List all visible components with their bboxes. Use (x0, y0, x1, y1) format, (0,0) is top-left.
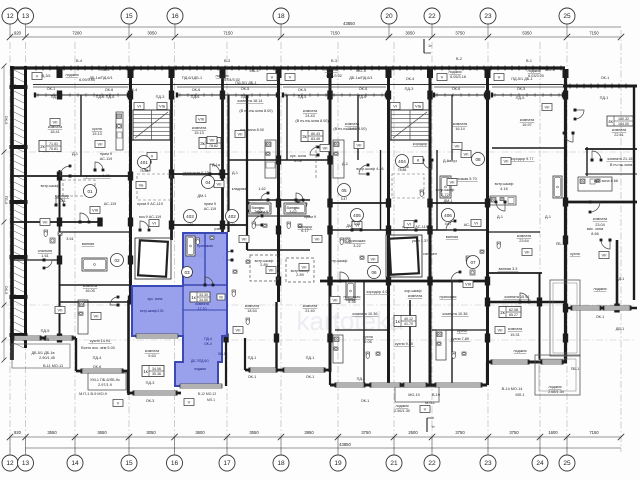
wall core3-right (429, 70, 432, 385)
svg-text:403: 403 (186, 214, 194, 219)
grid bubble 20 top (381, 8, 397, 24)
tag box VII (354, 142, 364, 149)
grid bubble 25 top (559, 8, 575, 24)
pier (128, 218, 133, 227)
window bottom wing 572 (572, 306, 600, 310)
wall center bath bottom (247, 249, 310, 251)
svg-text:V: V (441, 75, 444, 80)
sill mullion (219, 93, 221, 97)
wall stair-right (170, 70, 173, 240)
svg-text:прихожая 6.95: прихожая 6.95 (84, 174, 109, 178)
toilet mid low 1 (366, 352, 370, 358)
room circle 08 (472, 153, 485, 166)
svg-text:34.06: 34.06 (152, 367, 161, 371)
hatch (14, 91, 24, 96)
svg-text:07: 07 (470, 260, 476, 265)
facade mullion (119, 66, 121, 71)
facade mullion (154, 66, 156, 71)
window jamb (121, 369, 124, 374)
svg-text:комната: комната (508, 327, 523, 331)
svg-text:ПД-1: ПД-1 (51, 95, 60, 99)
pier (276, 199, 281, 208)
svg-text:7.81: 7.81 (58, 199, 65, 203)
sill mullion (53, 93, 55, 97)
svg-text:ОК-5: ОК-5 (4, 116, 8, 125)
leader 13 top (25, 24, 27, 37)
svg-text:В-4: В-4 (76, 59, 82, 63)
facade mullion (196, 66, 198, 71)
sill mullion (436, 93, 438, 97)
facade mullion (490, 66, 492, 71)
svg-text:01: 01 (87, 189, 93, 194)
svg-text:VII: VII (455, 144, 460, 149)
svg-text:78.86: 78.86 (140, 169, 149, 173)
facade mullion (392, 66, 394, 71)
tag box VII (542, 104, 552, 111)
svg-text:15.13: 15.13 (92, 132, 102, 136)
facade mullion (287, 66, 289, 71)
tag box VII (522, 249, 532, 256)
wall window-sill row bay3 (283, 94, 386, 96)
svg-text:35.36: 35.36 (152, 372, 161, 376)
wall bottom mid facade (245, 369, 330, 372)
elevator right room (386, 235, 422, 277)
door D27 (407, 220, 418, 232)
left vert dim line (3, 66, 5, 360)
svg-text:9.63: 9.63 (148, 354, 155, 358)
facade mullion (210, 66, 212, 71)
svg-text:санузел: санузел (423, 252, 437, 256)
dim tick bottom (22, 434, 28, 440)
pier (327, 199, 332, 208)
window kitchen bottom (82, 369, 122, 373)
svg-text:VII: VII (219, 296, 223, 300)
sink 1 (58, 232, 62, 235)
sill mullion (341, 93, 343, 97)
svg-text:кух. зона: кух. зона (148, 297, 163, 301)
svg-text:15.31: 15.31 (510, 333, 520, 337)
hatch (14, 308, 24, 313)
blue wall hall (183, 309, 227, 311)
grid axis line 16 (174, 42, 176, 452)
facade mullion (49, 66, 51, 71)
svg-text:АС-119: АС-119 (100, 157, 113, 161)
wall corridor north mid (330, 202, 388, 204)
blue tag VB (185, 270, 192, 276)
svg-text:5.65: 5.65 (354, 222, 361, 226)
facade mullion (182, 66, 184, 71)
svg-text:15: 15 (125, 460, 133, 467)
door D25 (110, 296, 120, 307)
svg-text:2.72: 2.72 (441, 193, 448, 197)
svg-text:ванная: ванная (446, 235, 458, 239)
svg-text:лоджия: лоджия (324, 68, 337, 72)
svg-text:комната: комната (593, 217, 608, 221)
svg-text:V: V (289, 75, 292, 80)
wall left room partition (59, 284, 130, 286)
wall apt5 inner (380, 150, 382, 230)
svg-text:21.40: 21.40 (305, 309, 315, 313)
facade mullion (455, 66, 457, 71)
svg-text:ДМ-1: ДМ-1 (197, 194, 206, 198)
kitchen counter mid (436, 330, 446, 360)
svg-text:комната: комната (612, 128, 627, 132)
leader 20 top (388, 24, 390, 37)
svg-text:17: 17 (223, 460, 231, 467)
svg-text:МО-2: МО-2 (466, 67, 476, 71)
facade mullion (441, 66, 443, 71)
sill jamb R (484, 93, 486, 98)
sill mullion (77, 93, 79, 97)
dim tick bottom (335, 434, 341, 440)
svg-text:ОК-6: ОК-6 (105, 88, 114, 92)
svg-text:комната: комната (192, 126, 207, 130)
svg-text:15.13: 15.13 (194, 131, 204, 135)
hatch (14, 266, 24, 271)
wall wing split (586, 147, 588, 176)
leader 23 top (487, 24, 489, 37)
left dim tick (2, 150, 7, 155)
grid bubble 23 top (480, 8, 496, 24)
wall stair1 bottom (130, 139, 171, 141)
svg-text:VI: VI (407, 222, 411, 227)
svg-text:43850: 43850 (339, 442, 351, 447)
facade mullion (245, 66, 247, 71)
balcony mid-bottom (395, 387, 439, 402)
level mark top (424, 39, 432, 53)
washer 4 (470, 270, 475, 275)
door D5 (253, 215, 264, 227)
room circle 404 (396, 155, 409, 173)
facade mullion (77, 66, 79, 71)
svg-text:В-3: В-3 (331, 59, 337, 63)
wall right bath top (487, 231, 540, 233)
tag box X (147, 153, 157, 160)
bathtub apt4 (440, 176, 451, 198)
pier (327, 91, 332, 100)
tag box VII (299, 264, 309, 271)
wall mid lower split (363, 281, 365, 385)
grid bubble 12 bottom (2, 455, 18, 471)
facade mullion (525, 66, 527, 71)
pier (485, 199, 490, 208)
facade mullion right (597, 84, 599, 89)
grid axis line 18 (280, 42, 282, 452)
svg-text:5350: 5350 (522, 31, 532, 36)
svg-text:180.32: 180.32 (618, 117, 629, 121)
pier (386, 226, 391, 235)
left dim tick (2, 220, 7, 225)
svg-text:Д-1: Д-1 (232, 171, 238, 175)
door D7 (351, 221, 363, 232)
svg-text:5.47: 5.47 (341, 197, 348, 201)
svg-text:ОК-6: ОК-6 (359, 87, 368, 91)
tag box VI (134, 103, 144, 110)
sill mullion (333, 93, 335, 97)
svg-text:9.06: 9.06 (364, 340, 371, 344)
svg-text:узел 1.3?: узел 1.3? (412, 239, 428, 243)
window jamb (323, 368, 326, 373)
facade mullion (224, 66, 226, 71)
svg-text:16: 16 (171, 460, 179, 467)
window bottom big 336 (336, 383, 364, 387)
svg-text:кухня: кухня (92, 127, 102, 131)
svg-text:13: 13 (22, 460, 30, 467)
svg-text:1т: 1т (431, 425, 435, 429)
sill mullion (502, 93, 504, 97)
svg-text:лоджия: лоджия (593, 287, 606, 291)
apt box 2к (39, 141, 61, 152)
svg-text:V: V (424, 407, 427, 412)
facade mullion (378, 66, 380, 71)
pier (220, 170, 225, 179)
wall bay5 room bottom (492, 147, 565, 149)
sill mullion (179, 93, 181, 97)
svg-text:15: 15 (125, 13, 133, 20)
level mark bottom (427, 418, 435, 432)
sill jamb R (562, 93, 564, 98)
pilaster (485, 69, 491, 78)
door D23 (310, 146, 320, 157)
pier (537, 298, 542, 307)
svg-text:кух. зона: кух. зона (290, 154, 307, 158)
tag box VII (239, 236, 249, 243)
svg-text:прихожая 6.15: прихожая 6.15 (183, 171, 208, 175)
facade mullion (70, 66, 72, 71)
grid axis line 25 (566, 42, 568, 452)
facade mullion (203, 66, 205, 71)
dim tick bottom (72, 434, 78, 440)
balcony left-bottom (88, 373, 126, 390)
room circle 401 (138, 156, 151, 174)
hatch (14, 224, 24, 229)
pier (276, 277, 281, 286)
hall dashed zone right core (392, 174, 424, 198)
wall bay4 split (451, 95, 453, 160)
room circle 04 (202, 176, 215, 189)
leader 22 top (431, 24, 433, 37)
pilaster (276, 69, 282, 78)
svg-text:80.43: 80.43 (311, 132, 320, 136)
svg-text:ПД-1: ПД-1 (600, 96, 609, 100)
svg-text:коридор 4.06: коридор 4.06 (367, 290, 390, 294)
door D10 (589, 201, 601, 214)
svg-text:7150: 7150 (330, 31, 340, 36)
facade mullion (294, 66, 296, 71)
wall bay2 rooms bottom (171, 173, 228, 175)
sill mullion (534, 93, 536, 97)
svg-text:8.66: 8.66 (591, 232, 598, 236)
svg-text:ПБ-1: ПБ-1 (556, 242, 565, 246)
sill mullion (293, 93, 295, 97)
dim tick top (618, 34, 624, 40)
loggia parapet segments (33, 86, 128, 88)
window jamb (39, 336, 42, 341)
svg-text:ОК-5: ОК-5 (41, 338, 50, 342)
wall corridor north mid2 (430, 202, 487, 204)
svg-text:ДМ-1: ДМ-1 (443, 199, 452, 203)
svg-text:комната: комната (303, 304, 318, 308)
svg-text:V: V (271, 75, 274, 80)
sill mullion (45, 93, 47, 97)
pier (128, 91, 133, 100)
grid axis line 15 (128, 42, 130, 452)
tag box VII (501, 158, 511, 165)
svg-text:4.21: 4.21 (187, 223, 194, 227)
facade mullion (105, 66, 107, 71)
tag box VII (320, 145, 330, 152)
svg-text:В-12 МО-12: В-12 МО-12 (198, 392, 217, 396)
svg-text:VIв: VIв (415, 104, 421, 109)
facade mullion (91, 66, 93, 71)
toilet 2 (190, 246, 194, 252)
pilaster (128, 69, 134, 78)
svg-text:(В пч.пж.зона 8.00): (В пч.пж.зона 8.00) (333, 127, 367, 131)
svg-text:18.41: 18.41 (50, 130, 60, 134)
wall bottom right-center facade (487, 361, 567, 364)
hatch (14, 322, 24, 327)
hatch (14, 343, 24, 348)
svg-text:4.91: 4.91 (229, 223, 236, 227)
svg-text:спальня: спальня (38, 249, 52, 253)
washer 2 (198, 252, 203, 257)
svg-text:16.05: 16.05 (85, 289, 95, 293)
pier (57, 256, 62, 265)
facade mullion (371, 66, 373, 71)
window jamb (363, 383, 366, 388)
svg-text:кухня: кухня (457, 329, 467, 333)
leader 18 bottom (280, 437, 282, 455)
svg-text:14: 14 (71, 460, 79, 467)
toilet 7 (466, 256, 470, 262)
svg-text:МЛ-1: МЛ-1 (207, 398, 215, 402)
facade mullion (560, 66, 562, 71)
pier (563, 198, 568, 207)
sink 2 (360, 256, 364, 259)
pier (427, 199, 432, 208)
svg-text:Д-1а: Д-1а (212, 163, 221, 167)
svg-text:комната: комната (453, 122, 468, 126)
hatch (14, 161, 24, 166)
svg-text:21: 21 (390, 460, 398, 467)
sill jamb R (127, 93, 129, 98)
sill jamb R (385, 93, 387, 98)
svg-text:7200: 7200 (72, 31, 82, 36)
svg-text:24.43: 24.43 (305, 114, 315, 118)
sill jamb L (282, 93, 284, 98)
left wall stub (10, 145, 28, 149)
pilaster (427, 69, 433, 78)
wall bottom left facade (10, 337, 76, 340)
dashed zone line (315, 145, 317, 180)
svg-text:VII: VII (242, 237, 247, 242)
svg-text:встр.шкаф: встр.шкаф (329, 259, 348, 263)
sill mullion (452, 93, 454, 97)
svg-text:(В пч.пж.зона 8.00): (В пч.пж.зона 8.00) (239, 109, 273, 113)
svg-text:кухня: кухня (570, 252, 580, 256)
window protrusion bottom (134, 391, 176, 395)
wall bottom protrusion v (127, 371, 129, 393)
svg-text:комната 18.14: комната 18.14 (238, 99, 263, 103)
svg-text:4к: 4к (608, 119, 613, 124)
loggia column right (550, 280, 580, 356)
svg-text:3.62: 3.62 (289, 210, 296, 214)
dim tick top (429, 34, 435, 40)
svg-text:Д-1: Д-1 (72, 152, 78, 156)
facade mullion (343, 66, 345, 71)
pier (128, 256, 133, 265)
hatch (14, 196, 24, 201)
tag box VI (352, 222, 362, 229)
svg-text:комната: комната (145, 349, 160, 353)
toilet 6 (246, 318, 250, 324)
window jamb (275, 368, 278, 373)
sink mid low 2 (462, 352, 466, 355)
blue wall kitchen (182, 285, 184, 336)
svg-text:ПБ-6: ПБ-6 (4, 196, 8, 205)
sill mullion (117, 93, 119, 97)
wall mid corridor south (330, 229, 487, 231)
sill mullion (187, 93, 189, 97)
svg-text:VII: VII (315, 237, 320, 242)
pier (485, 298, 490, 307)
sill mullion (468, 93, 470, 97)
wall right wing upper (585, 148, 637, 150)
svg-text:ПД-6: ПД-6 (358, 95, 367, 99)
hall dashed zone left core (137, 174, 171, 200)
svg-text:VII: VII (43, 220, 48, 225)
svg-text:03: 03 (184, 270, 190, 275)
pier (223, 334, 228, 343)
blue fixtures (186, 236, 214, 256)
svg-text:ПД-4: ПД-4 (204, 337, 212, 341)
sill mullion (195, 93, 197, 97)
pier (386, 91, 391, 100)
svg-text:ПД-1: ПД-1 (248, 356, 257, 360)
window bottom big 436 (436, 383, 481, 387)
hatch (14, 217, 24, 222)
grid axis line 26 (620, 30, 622, 452)
svg-text:ОК-3: ОК-3 (146, 399, 155, 403)
svg-text:2к: 2к (500, 310, 505, 315)
door D21 (422, 159, 434, 170)
svg-text:ПД-1: ПД-1 (357, 377, 366, 381)
toilet strip228 (232, 290, 236, 296)
svg-text:лоджия: лоджия (527, 69, 540, 73)
tag box VIII (196, 116, 206, 123)
apt box 3к bay2 (199, 138, 221, 149)
svg-text:3650: 3650 (97, 430, 107, 435)
sill mullion (357, 93, 359, 97)
tag box VI (404, 221, 414, 228)
overall dim line bottom (26, 447, 622, 449)
svg-text:ДМ-1: ДМ-1 (295, 199, 304, 203)
sill jamb L (34, 93, 36, 98)
svg-text:ОК-6: ОК-6 (452, 87, 461, 91)
svg-text:2.97/1.9: 2.97/1.9 (98, 383, 112, 387)
svg-text:1.62: 1.62 (258, 187, 265, 191)
pier (57, 172, 62, 181)
pier (485, 334, 490, 343)
svg-text:ПД-6: ПД-6 (106, 95, 115, 99)
facade mullion (63, 66, 65, 71)
svg-text:23.04: 23.04 (595, 223, 605, 227)
window jamb (335, 383, 338, 388)
sill mullion (444, 93, 446, 97)
facade mullion right (576, 84, 578, 89)
sill mullion (85, 93, 87, 97)
facade mullion (126, 66, 128, 71)
